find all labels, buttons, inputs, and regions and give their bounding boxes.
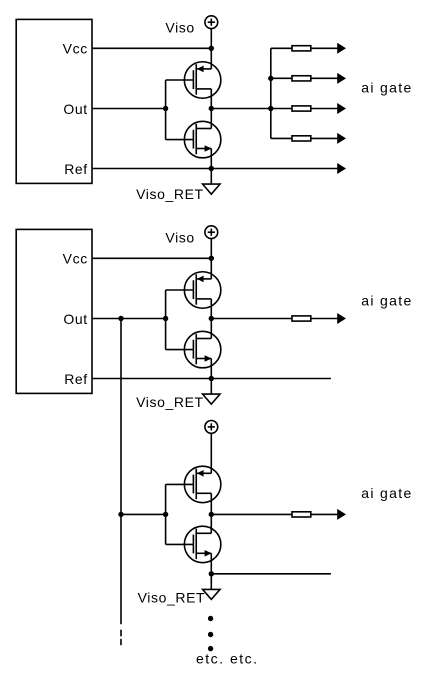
resistor R6 bbox=[292, 512, 311, 517]
node chain tap junction bbox=[118, 316, 123, 321]
wire branch 2 to R2 bbox=[271, 77, 292, 79]
wire daisy-chain continuation dash 2 bbox=[120, 639, 122, 645]
node resistor bus junction A bbox=[268, 76, 273, 81]
node Ref junction 3 bbox=[209, 571, 214, 576]
wire daisy-chain drop from Out 2 bbox=[120, 319, 122, 625]
wire gate bus section 1 bbox=[165, 80, 167, 140]
node output 2 junction bbox=[209, 316, 214, 321]
node resistor bus junction B bbox=[268, 106, 273, 111]
wire output 3 to R6 bbox=[211, 513, 292, 515]
svg-text:Viso: Viso bbox=[165, 20, 194, 36]
resistor R1 bbox=[292, 46, 311, 51]
opto-driver U2 (box) bbox=[16, 229, 92, 393]
svg-text:ai gate: ai gate bbox=[361, 80, 412, 96]
node Vcc1 junction bbox=[209, 46, 214, 51]
resistor R3 bbox=[292, 106, 311, 111]
ellipsis dot 2 bbox=[208, 632, 213, 637]
transistor Q1A (P-MOSFET) bbox=[166, 62, 221, 99]
node chain tap junction 3 bbox=[118, 512, 123, 517]
node Vcc2 junction bbox=[209, 256, 214, 261]
node gate bus junction 3 bbox=[163, 512, 168, 517]
svg-text:Viso_RET: Viso_RET bbox=[138, 590, 206, 606]
wire Q1A source to output node bbox=[210, 89, 212, 109]
wire R6 to arrow bbox=[311, 513, 338, 515]
wire U1.Out to gate bus bbox=[92, 108, 166, 110]
svg-text:Vcc: Vcc bbox=[63, 41, 88, 57]
arrow output section 3 bbox=[337, 509, 346, 520]
wire R2 to output arrow 2 bbox=[311, 77, 338, 79]
arrow output 2 bbox=[337, 73, 346, 84]
wire Q2A drain stub up bbox=[210, 258, 212, 279]
resistor R4 bbox=[292, 136, 311, 141]
svg-text:Ref: Ref bbox=[64, 371, 88, 387]
resistor R2 bbox=[292, 76, 311, 81]
svg-text:Vcc: Vcc bbox=[63, 251, 88, 267]
wire U1.Vcc to rail bbox=[92, 47, 211, 49]
wire Q1A drain stub up to Vcc node bbox=[210, 48, 212, 69]
svg-text:Viso_RET: Viso_RET bbox=[136, 186, 204, 202]
wire branch 4 to R4 bbox=[271, 137, 292, 139]
wire to Viso_RET symbol 2 bbox=[210, 379, 212, 395]
node output 3 junction bbox=[209, 512, 214, 517]
wire branch 3 to R3 bbox=[271, 108, 292, 110]
transistor Q3B (N-MOSFET) bbox=[166, 526, 221, 563]
svg-text:Viso_RET: Viso_RET bbox=[136, 394, 204, 410]
wire Q3B source to Ref rail 3 bbox=[210, 553, 212, 574]
wire Q1B source to Ref rail bbox=[210, 149, 212, 169]
wire Q2B drain to output node 2 bbox=[210, 319, 212, 339]
wire gate bus section 2 bbox=[165, 290, 167, 350]
opto-driver U1 (box) bbox=[16, 19, 92, 183]
wire Q2A source to output node 2 bbox=[210, 299, 212, 319]
node gate bus junction 1 bbox=[163, 106, 168, 111]
wire U1.Ref / Viso_RET rail to arrow bbox=[92, 168, 338, 170]
arrow output 3 bbox=[337, 103, 346, 114]
power symbol P3 (circle-plus) bbox=[205, 421, 218, 434]
wire gate bus section 3 bbox=[165, 484, 167, 544]
arrow output 4 bbox=[337, 133, 346, 144]
wire R4 to output arrow 4 bbox=[311, 137, 338, 139]
wire chain tap to gate bus 3 bbox=[121, 513, 166, 515]
wire R1 to output arrow 1 bbox=[311, 47, 338, 49]
wire Q1B drain to output node bbox=[210, 109, 212, 129]
svg-text:Out: Out bbox=[63, 311, 87, 327]
wire to Viso_RET symbol 3 bbox=[210, 574, 212, 590]
wire P2 stub to Vcc rail 2 bbox=[210, 239, 212, 259]
node output 1 junction bbox=[209, 106, 214, 111]
arrow output section 2 bbox=[337, 313, 346, 324]
node Ref junction 1 bbox=[209, 166, 214, 171]
wire to Viso_RET symbol 1 bbox=[210, 169, 212, 185]
power symbol P2 (circle-plus) bbox=[205, 226, 218, 239]
wire output 2 to R5 bbox=[211, 318, 292, 320]
wire U2.Vcc to rail bbox=[92, 257, 211, 259]
ground symbol G3 (Viso_RET triangle) bbox=[203, 589, 220, 599]
arrow Ref output bbox=[337, 163, 346, 174]
svg-text:Ref: Ref bbox=[64, 161, 88, 177]
arrow output 1 bbox=[337, 43, 346, 54]
wire Q3B drain to output node 3 bbox=[210, 514, 212, 533]
wire Ref rail 3 bbox=[211, 573, 331, 575]
wire Q3A source to output node 3 bbox=[210, 493, 212, 514]
svg-text:Viso: Viso bbox=[165, 230, 194, 246]
svg-text:ai gate: ai gate bbox=[361, 485, 412, 501]
node Ref junction 2 bbox=[209, 376, 214, 381]
transistor Q2A (P-MOSFET) bbox=[166, 272, 221, 309]
transistor Q3A (P-MOSFET) bbox=[166, 466, 221, 503]
svg-text:etc. etc.: etc. etc. bbox=[196, 650, 259, 666]
ground symbol G2 (Viso_RET triangle) bbox=[203, 394, 220, 404]
wire P3 stub down to Q3A bbox=[210, 433, 212, 473]
ellipsis dot 3 bbox=[208, 646, 213, 651]
transistor Q1B (N-MOSFET) bbox=[166, 121, 221, 158]
power symbol P1 (circle-plus) bbox=[205, 16, 218, 29]
wire branch 1 to R1 bbox=[271, 47, 292, 49]
ground symbol G1 (Viso_RET triangle) bbox=[203, 184, 220, 194]
transistor Q2B (N-MOSFET) bbox=[166, 331, 221, 368]
wire Q2B source to Ref rail 2 bbox=[210, 359, 212, 379]
wire R3 to output arrow 3 bbox=[311, 108, 338, 110]
wire P1 stub to Vcc rail bbox=[210, 29, 212, 49]
wire resistor bus (section 1) bbox=[270, 48, 272, 138]
node gate bus junction 2 bbox=[163, 316, 168, 321]
ellipsis dot 1 bbox=[208, 616, 213, 621]
wire output node to resistor bus bbox=[211, 108, 270, 110]
svg-text:Out: Out bbox=[63, 101, 87, 117]
resistor R5 bbox=[292, 316, 311, 321]
svg-text:ai gate: ai gate bbox=[361, 293, 412, 309]
wire U2.Ref rail bbox=[92, 378, 331, 380]
wire daisy-chain continuation dash 1 bbox=[120, 630, 122, 637]
wire U2.Out to gate bus bbox=[92, 318, 166, 320]
wire R5 to arrow bbox=[311, 318, 338, 320]
